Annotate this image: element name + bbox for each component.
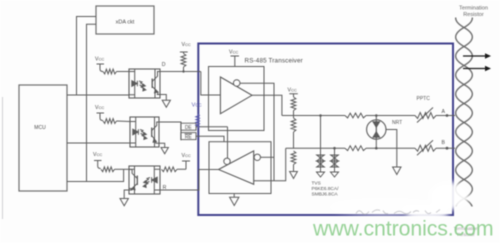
optocoupler U1	[129, 69, 160, 98]
resistor R1 (opto U1 LED series)	[103, 69, 117, 74]
svg-text:D: D	[162, 62, 166, 68]
MCU block	[19, 85, 67, 191]
PPTC fuse F2 on B	[415, 145, 436, 151]
svg-text:DE: DE	[185, 125, 193, 131]
wire xDA line 2 (RXD tap)	[87, 24, 97, 181]
svg-text:NRT: NRT	[392, 120, 402, 126]
DE/RE enable wire into receiver bubble	[227, 127, 229, 158]
series resistor Ra	[345, 113, 366, 118]
ground opto U1 emitter	[157, 95, 167, 101]
wire MCU to opto U2 cathode	[67, 142, 130, 144]
bus direction arrows	[463, 55, 486, 57]
resistor R4 (opto U3 LED series)	[162, 167, 178, 172]
node B line	[286, 147, 345, 149]
xDA ckt block	[96, 6, 154, 34]
wire MCU TXD to opto U1 cathode	[67, 94, 129, 96]
optocoupler U3 (flipped: LED on transceiver side)	[129, 166, 160, 194]
driver inverting output wire (to B node)	[240, 83, 274, 180]
svg-text:xDA ckt: xDA ckt	[116, 20, 135, 26]
series resistor Rb	[345, 146, 366, 151]
wire xDA line 1 (TXD tap)	[77, 17, 97, 96]
driver output wire (to A node)	[252, 95, 282, 115]
ground receiver	[233, 194, 235, 198]
svg-text:A: A	[442, 109, 446, 115]
resistor bias low (B to GND)	[291, 151, 296, 165]
(decorative wash, not labeled)	[330, 182, 469, 220]
driver enable bubble	[233, 80, 240, 87]
svg-text:PPTC: PPTC	[417, 96, 431, 102]
wire MCU RXD from opto U3	[67, 169, 124, 181]
receiver B input wire	[254, 148, 286, 181]
driver buffer triangle U4A	[220, 77, 252, 114]
node A line	[282, 115, 345, 117]
RS-485 transceiver module boundary (blue box)	[198, 44, 453, 216]
wire opto U2 output to DE/RE	[159, 122, 181, 140]
receiver enable bubble	[224, 158, 230, 164]
optocoupler U2	[130, 117, 159, 147]
NRT surge arrester	[375, 116, 377, 121]
svg-text:Resistor: Resistor	[463, 12, 484, 18]
resistor R3 (collector pull-up)	[101, 167, 115, 172]
ground NRT	[386, 130, 397, 168]
receiver buffer triangle U4B	[219, 151, 254, 184]
PPTC fuse F1 on A	[415, 113, 436, 119]
svg-text:Termination: Termination	[459, 6, 488, 12]
TVS diode D1 on A line	[320, 116, 322, 168]
resistor R2 (opto U2 LED series)	[103, 119, 117, 124]
svg-text:P6KE6.8CA/: P6KE6.8CA/	[312, 186, 340, 192]
RE net label (active low)	[181, 133, 196, 140]
svg-text:www.cntronics.com: www.cntronics.com	[312, 217, 494, 241]
DE net label	[181, 123, 196, 130]
svg-text:TVS: TVS	[312, 181, 321, 187]
left edge scan artifact	[2, 97, 4, 219]
driver enclosure	[209, 67, 265, 131]
receiver input bubble	[254, 154, 260, 160]
svg-text:SMBJ6.8CA: SMBJ6.8CA	[312, 192, 339, 198]
svg-text:B: B	[442, 140, 446, 146]
twisted pair cable	[456, 9, 473, 218]
ground opto U3 emitter	[124, 189, 132, 199]
resistor bias high (Vcc to A)	[291, 97, 296, 111]
svg-text:RS-485 Transceiver: RS-485 Transceiver	[245, 58, 303, 65]
ground arrow bias network	[290, 172, 298, 179]
TVS diode D2 on B line	[334, 148, 336, 167]
svg-text:MCU: MCU	[34, 125, 46, 131]
svg-text:RE: RE	[185, 135, 193, 141]
receiver enclosure	[209, 142, 271, 194]
resistor bias mid (A to B)	[291, 118, 296, 132]
ground opto U2 emitter	[156, 143, 165, 147]
